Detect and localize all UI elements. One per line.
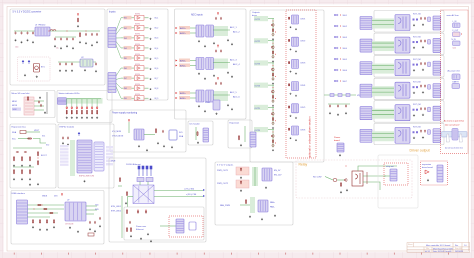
transistor Q13 [333,178,337,182]
junction [272,86,275,89]
op-amp U10 [135,96,145,101]
connector J22 [17,200,28,224]
ground [290,26,292,28]
capacitor C8 [72,37,74,40]
wire [268,129,274,131]
fuse F1 [453,23,461,28]
wire [272,107,274,125]
transistor Q5 [272,68,274,71]
wire [34,105,44,107]
svg-text:IN3: IN3 [124,38,127,40]
ground [422,136,424,138]
wire [28,212,59,214]
wire [34,109,44,111]
wire fanout [116,18,121,58]
wire [254,167,256,186]
wire [145,97,149,99]
bus highlight [254,83,268,88]
wire [121,67,134,69]
wire [34,100,44,102]
svg-text:Power over: Power over [136,226,146,228]
resistor R21 [86,110,87,115]
wire [28,216,51,218]
transformer T1 [133,185,154,204]
IC U2 [80,59,93,67]
resistor R7 [288,39,290,42]
highlight box [286,10,316,158]
section box relay unit 6 [374,123,444,145]
transistor Q6 [272,78,274,80]
wire [144,134,155,136]
wire [272,63,274,81]
junction [274,31,277,34]
jumper JP1 [334,14,338,16]
net label highlighted [179,64,190,67]
power flag [217,12,218,15]
svg-text:MOSI: MOSI [12,105,18,107]
wire [121,196,123,238]
junction [41,204,44,207]
wire [372,91,394,93]
wire [128,196,134,198]
power flag [217,45,218,48]
ground [13,178,15,180]
svg-text:IN1: IN1 [124,18,127,20]
resistor R47 [46,219,47,223]
ground [231,75,233,77]
capacitor C19 [215,49,217,52]
section box 5V 3.3V DC/DC converter [10,9,105,85]
bus highlight [372,64,394,74]
capacitor C22 [220,82,222,85]
ground [32,41,34,43]
net label highlighted [124,66,132,70]
resistor R19 [76,110,77,115]
svg-text:Title:: Title: [426,247,430,250]
capacitor C31 [424,62,426,65]
ground [249,215,251,217]
svg-text:IN2: IN2 [124,28,127,30]
ground [422,114,424,116]
svg-text:EN_5V: EN_5V [274,170,281,172]
resistor R15 [288,128,290,131]
bus highlight [212,59,228,69]
bus highlight [372,109,394,119]
resistor R12 [272,117,273,121]
ground [150,28,152,30]
LED D4 [81,107,83,109]
wire [268,62,274,64]
ground [295,50,297,52]
connector J16 [58,98,67,104]
net label highlighted [124,36,132,40]
svg-text:SEL6: SEL6 [343,70,347,72]
ground [150,58,152,60]
ground [272,82,274,84]
wire [86,209,97,211]
wire [363,182,380,190]
wire [121,47,134,49]
wire [121,37,134,39]
flyback diode D16 [366,172,368,184]
svg-text:USB interface: USB interface [12,192,26,195]
relay K2 [395,37,410,53]
svg-text:IN6: IN6 [124,68,127,70]
junction [272,108,275,111]
svg-text:IN_5: IN_5 [155,58,159,60]
ground [295,95,297,97]
wire [96,99,98,107]
svg-text:Status indicator LEDs: Status indicator LEDs [59,92,81,95]
svg-text:relay out: relay out [386,165,394,168]
svg-text:x (TX+) Shld: x (TX+) Shld [184,189,194,191]
wire [358,166,397,171]
ground [295,117,297,119]
ground [261,218,263,220]
wire [127,197,129,208]
snubber network [413,41,415,43]
input flag [176,97,178,99]
resistor R24 [27,138,32,139]
junction [339,47,342,50]
TVS array [137,178,144,182]
resistor R38 [119,177,120,182]
ground [198,40,200,42]
ground [422,91,424,93]
wire [154,196,203,198]
connector J8 [360,62,372,75]
standoff M1 [446,134,449,142]
junction [274,142,277,145]
connector J21 [437,165,443,182]
TVS diode D10 [146,166,148,176]
ground [77,25,79,27]
ground [44,111,46,113]
polyfuse F1 [20,131,26,134]
ground [427,179,429,181]
capacitor C25 [345,104,347,107]
jumper JP6 [334,69,338,71]
resistor R8 [272,73,273,77]
capacitor C45 [89,221,91,224]
power symbol [22,60,24,64]
svg-text:IN_2: IN_2 [155,28,159,30]
section box Relay [296,160,412,198]
net label highlighted [179,31,190,34]
ground [198,105,200,107]
ground [46,228,48,230]
ground [422,23,424,25]
ground [272,127,274,129]
ground [295,139,297,141]
connector J6 [360,39,372,52]
IC U20 [292,15,299,24]
jumper JP4 [334,47,338,49]
svg-text:ADC_2: ADC_2 [233,31,241,34]
resistor R48 [53,219,54,223]
resistor R14 [272,139,273,143]
svg-text:20210523: 20210523 [455,251,463,253]
resistor R40 [245,199,246,204]
svg-text:ADC_3: ADC_3 [230,59,238,62]
ground [204,110,206,112]
resistor R29 [21,169,22,174]
wire [268,106,274,108]
svg-text:ADC_6: ADC_6 [233,96,241,99]
section box Micro SD card slot [10,91,55,118]
junction [339,58,342,61]
svg-text:Outputs: Outputs [252,11,261,14]
LED D7 [96,107,98,109]
ground [138,145,140,147]
capacitor C11 [96,33,98,36]
svg-text:VEXT: VEXT [34,130,40,132]
input flag [176,27,178,29]
highlight box [384,163,408,185]
ground [150,18,152,20]
ground [77,230,79,232]
wire [213,29,230,31]
transistor Q8 [272,100,274,102]
LED D2 [71,107,73,109]
ground [337,113,339,115]
resistor R33 [197,131,198,136]
ground [29,183,31,185]
resistor R42 [37,204,41,205]
highlight box [441,10,469,154]
svg-text:F_OUT: F_OUT [453,30,460,32]
component module [189,222,196,230]
wire [121,87,134,89]
wire [147,182,149,186]
net label highlighted [124,46,132,50]
wire [272,130,274,148]
capacitor C5 [54,37,56,40]
ground [36,75,38,77]
capacitor C36 [420,130,422,133]
svg-text:ESP32 module: ESP32 module [60,127,75,129]
wire [268,84,274,86]
ferrite bead FB3 [346,94,350,97]
relay K5 [395,105,410,121]
svg-text:RLY3_NO: RLY3_NO [413,59,422,61]
ground [84,69,86,71]
svg-text:22u: 22u [56,48,59,50]
wire [337,179,344,181]
svg-text:Power supply monitoring: Power supply monitoring [112,112,138,115]
capacitor C23 [329,104,331,107]
ground [150,78,152,80]
svg-text:MCP60: MCP60 [135,54,140,56]
resistor R2 [79,32,80,37]
jumper JP3 [334,36,338,38]
ground [59,69,61,71]
svg-text:ADC_1: ADC_1 [230,26,238,29]
ground [91,44,93,46]
ground [240,144,242,146]
net labels stack [60,145,69,147]
module pin column [94,142,104,171]
junction [272,20,275,23]
diode D15 [240,181,242,185]
connector J7 [433,39,441,53]
op-amp U8 [135,76,145,81]
wire [384,175,390,177]
wire [244,126,246,142]
svg-text:OUT6: OUT6 [255,130,261,132]
ground [272,60,274,62]
resistor R6 [272,50,273,54]
varistor RV5 [428,107,431,112]
bus highlight [250,197,255,213]
wire [145,77,149,79]
junction [339,14,342,17]
varistor RV4 [428,85,431,90]
svg-text:IN9: IN9 [124,98,127,100]
IC U17 [196,90,204,102]
bus highlight [252,167,258,186]
resistor R45 [32,219,33,223]
svg-text:RLY5_NO: RLY5_NO [413,104,422,106]
svg-text:AIN6+: AIN6+ [180,97,187,100]
section box battery backup [18,57,51,81]
resistor R4 [272,28,273,32]
op-amp U9 [135,86,145,91]
capacitor C24 [337,104,339,107]
ground [146,149,148,151]
svg-text:Inputs: Inputs [109,11,116,14]
ground [86,116,88,118]
svg-text:DRV2: DRV2 [301,41,306,43]
resistor R32 [37,160,38,165]
connector J15 [433,129,441,143]
bus highlight [372,19,394,29]
wire [190,97,196,99]
ground [213,74,215,76]
wire [145,47,149,49]
wire [121,17,134,19]
section box Power supply monitoring [110,110,186,152]
ground [329,112,331,114]
wire [160,225,176,227]
capacitor C7 [66,37,68,40]
capacitor C10 [91,33,93,36]
wire [86,99,88,107]
connector J5 [433,16,441,30]
wire [145,27,149,29]
svg-text:driver board: driver board [422,167,433,169]
ground [198,72,200,74]
power flag [217,77,218,80]
transistor Q4 [272,56,274,58]
svg-text:RLY6_NO: RLY6_NO [413,126,422,128]
op-amp U6 [135,56,145,61]
op-amp U28 [425,170,429,174]
net label highlighted [12,108,21,111]
capacitor C9 [85,33,87,36]
capacitor C44 [129,221,131,224]
section box USB interface [11,191,104,245]
net label highlighted [124,96,132,100]
exit arrows [203,189,205,197]
IC U19 [213,100,220,110]
capacitor C34 [420,107,422,110]
ground [81,116,83,118]
resistor R39 [130,227,131,232]
ground [89,228,91,230]
highlighted part [236,167,249,175]
connector J1 [108,28,116,48]
IC U14 [206,25,214,37]
ground [265,186,267,188]
capacitor C43 [67,136,69,139]
wire [28,204,65,206]
svg-text:x (RX+) PSE: x (RX+) PSE [186,194,197,196]
wire [55,36,76,38]
wire [66,99,68,107]
capacitor C37 [424,130,426,133]
IC U15 [196,58,204,70]
IC U29 [65,202,86,221]
op-amp U2 [135,15,145,20]
varistor RV2 [428,40,431,45]
svg-text:U7: U7 [67,200,69,202]
resistor R30 [29,169,30,174]
svg-text:DRV1: DRV1 [301,18,306,20]
ground [231,43,233,45]
ground [21,178,23,180]
resistor R25 [13,156,14,161]
capacitor C38 [38,100,40,103]
wire [26,131,40,133]
wire [86,205,97,207]
svg-text:100n: 100n [15,47,19,49]
ground [53,226,55,228]
svg-text:do not touch when live: do not touch when live [445,147,463,150]
connector J14 [360,129,372,142]
ground [96,116,98,118]
wire [325,177,333,181]
svg-text:ADC inputs: ADC inputs [191,14,203,17]
power flag [128,119,129,122]
section box Expansion header [228,120,252,148]
svg-text:5 V 3.3 V DC/DC converter: 5 V 3.3 V DC/DC converter [13,11,42,14]
inductor L1 [50,30,56,31]
svg-text:ETH_LED2: ETH_LED2 [111,211,122,213]
ground [345,112,347,114]
ground [29,164,31,166]
capacitor C21 [215,82,217,85]
svg-text:take care please!: take care please! [445,124,460,127]
capacitor C35 [424,107,426,110]
connector J17 [203,128,209,142]
connector J12 [360,107,372,120]
svg-text:Size: A3: Size: A3 [455,247,462,250]
wire [118,185,122,187]
ground [66,45,68,47]
svg-text:U1 TPS5430: U1 TPS5430 [35,25,45,27]
svg-text:I2C header: I2C header [190,123,201,126]
svg-text:OUT4: OUT4 [255,86,261,88]
connector AC inlet 2 [452,84,460,89]
ground [72,47,74,49]
svg-text:IN_3: IN_3 [155,38,159,40]
standoff assembly [442,132,468,138]
svg-text:AIN3+: AIN3+ [180,59,187,62]
junction [339,80,342,83]
svg-text:AC mains is quite lethal: AC mains is quite lethal [444,120,464,123]
wire [13,147,42,149]
